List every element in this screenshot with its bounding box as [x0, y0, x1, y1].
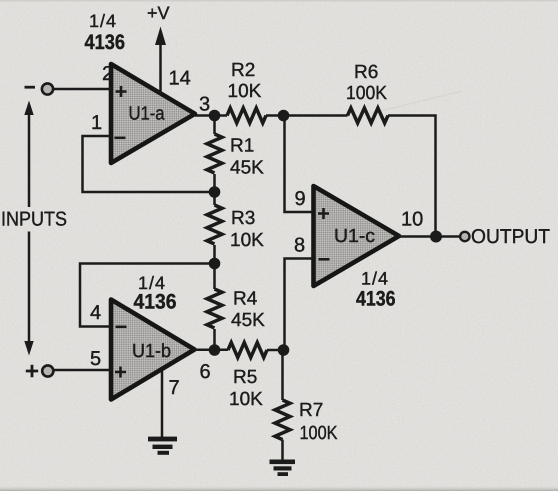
terminal output: [460, 232, 469, 241]
svg-text:R1: R1: [230, 136, 254, 157]
svg-text:R3: R3: [231, 208, 255, 229]
svg-text:2: 2: [102, 63, 113, 85]
pin label 5: [90, 348, 101, 370]
node dot2: [278, 110, 290, 122]
wire dot2 to pin9: [285, 116, 314, 213]
svg-text:7: 7: [169, 377, 180, 399]
node dot1: [209, 110, 221, 122]
svg-text:OUTPUT: OUTPUT: [471, 226, 550, 248]
svg-text:14: 14: [169, 68, 191, 90]
svg-text:U1-c: U1-c: [334, 226, 375, 247]
pin label 9: [295, 188, 306, 210]
svg-text:4136: 4136: [85, 31, 126, 54]
terminal plus input: [26, 365, 54, 377]
scan scratch mark: [352, 91, 462, 118]
svg-text:3: 3: [199, 94, 210, 116]
svg-text:R7: R7: [299, 400, 323, 421]
svg-text:1/4: 1/4: [361, 269, 388, 289]
pin label 2: [102, 63, 113, 85]
wire U1-b output: [195, 349, 284, 352]
svg-text:100K: 100K: [300, 423, 338, 444]
INPUTS arrow: [24, 101, 33, 356]
svg-text:100K: 100K: [346, 83, 387, 104]
svg-text:1/4: 1/4: [89, 11, 116, 31]
label 1/4 4136 (U1-b): [134, 273, 177, 314]
resistor R1: [207, 134, 264, 179]
svg-text:45K: 45K: [231, 310, 265, 331]
svg-text:10K: 10K: [229, 389, 263, 410]
node dot5: [209, 344, 221, 356]
svg-text:4136: 4136: [356, 288, 396, 311]
node dot7 output: [430, 231, 442, 243]
resistor R5: [228, 343, 267, 411]
pin label 7: [169, 377, 180, 399]
op-amp U1-a: [111, 64, 195, 163]
label 1/4 4136 (U1-a): [85, 11, 126, 54]
wire dot6 to R7: [281, 350, 284, 400]
svg-text:R5: R5: [233, 367, 257, 388]
+V supply arrow pin 14: [147, 3, 170, 94]
svg-text:U1-a: U1-a: [129, 104, 165, 125]
pin label 8: [294, 235, 305, 257]
wire: [195, 116, 436, 237]
svg-text:+V: +V: [147, 3, 170, 23]
resistor R6: [346, 62, 388, 123]
pin label 10: [401, 209, 423, 231]
svg-text:R4: R4: [233, 289, 258, 310]
svg-text:10K: 10K: [230, 230, 264, 251]
svg-text:8: 8: [294, 235, 305, 257]
label OUTPUT: [471, 226, 550, 248]
pin label 4: [90, 302, 101, 324]
resistor R4: [207, 289, 265, 332]
terminal minus input: [25, 83, 54, 94]
wire pin1 feedback U1-a: [83, 136, 215, 192]
svg-text:4: 4: [90, 302, 101, 324]
pin label 14: [169, 68, 191, 90]
ground (U1-b pin7): [148, 437, 177, 455]
label INPUTS: [1, 209, 67, 231]
ground (R7): [270, 460, 296, 477]
label 1/4 4136 (U1-c): [356, 269, 396, 311]
pin label 3: [199, 94, 210, 116]
svg-text:10K: 10K: [228, 81, 262, 102]
svg-text:R6: R6: [354, 62, 378, 83]
wire dot6 to pin8: [285, 259, 314, 351]
svg-text:10: 10: [401, 209, 423, 231]
resistor R3: [207, 205, 264, 251]
svg-text:4136: 4136: [134, 291, 177, 314]
node dot3: [209, 186, 221, 198]
wire pin2 input: [54, 88, 111, 91]
node dot4: [209, 258, 221, 270]
svg-text:U1-b: U1-b: [132, 341, 171, 362]
wire U1-c output: [399, 235, 459, 238]
op-amp U1-c: [314, 186, 400, 286]
svg-text:INPUTS: INPUTS: [1, 209, 67, 231]
wire R7 to ground: [281, 440, 284, 460]
wire pin7: [161, 371, 164, 437]
svg-text:6: 6: [200, 361, 211, 383]
svg-text:1: 1: [91, 112, 102, 134]
svg-text:5: 5: [90, 348, 101, 370]
node dot6: [278, 344, 290, 356]
wire pin5 input: [55, 369, 112, 372]
svg-text:45K: 45K: [230, 158, 264, 179]
svg-text:R2: R2: [231, 60, 255, 81]
wire R1 chain vertical: [213, 116, 216, 351]
pin label 6: [200, 361, 211, 383]
resistor R2: [227, 60, 266, 123]
resistor R7: [275, 400, 338, 444]
pin label 1: [91, 112, 102, 134]
op-amp U1-b: [111, 300, 195, 400]
svg-text:9: 9: [295, 188, 306, 210]
wire pin4 feedback U1-b: [80, 264, 215, 327]
